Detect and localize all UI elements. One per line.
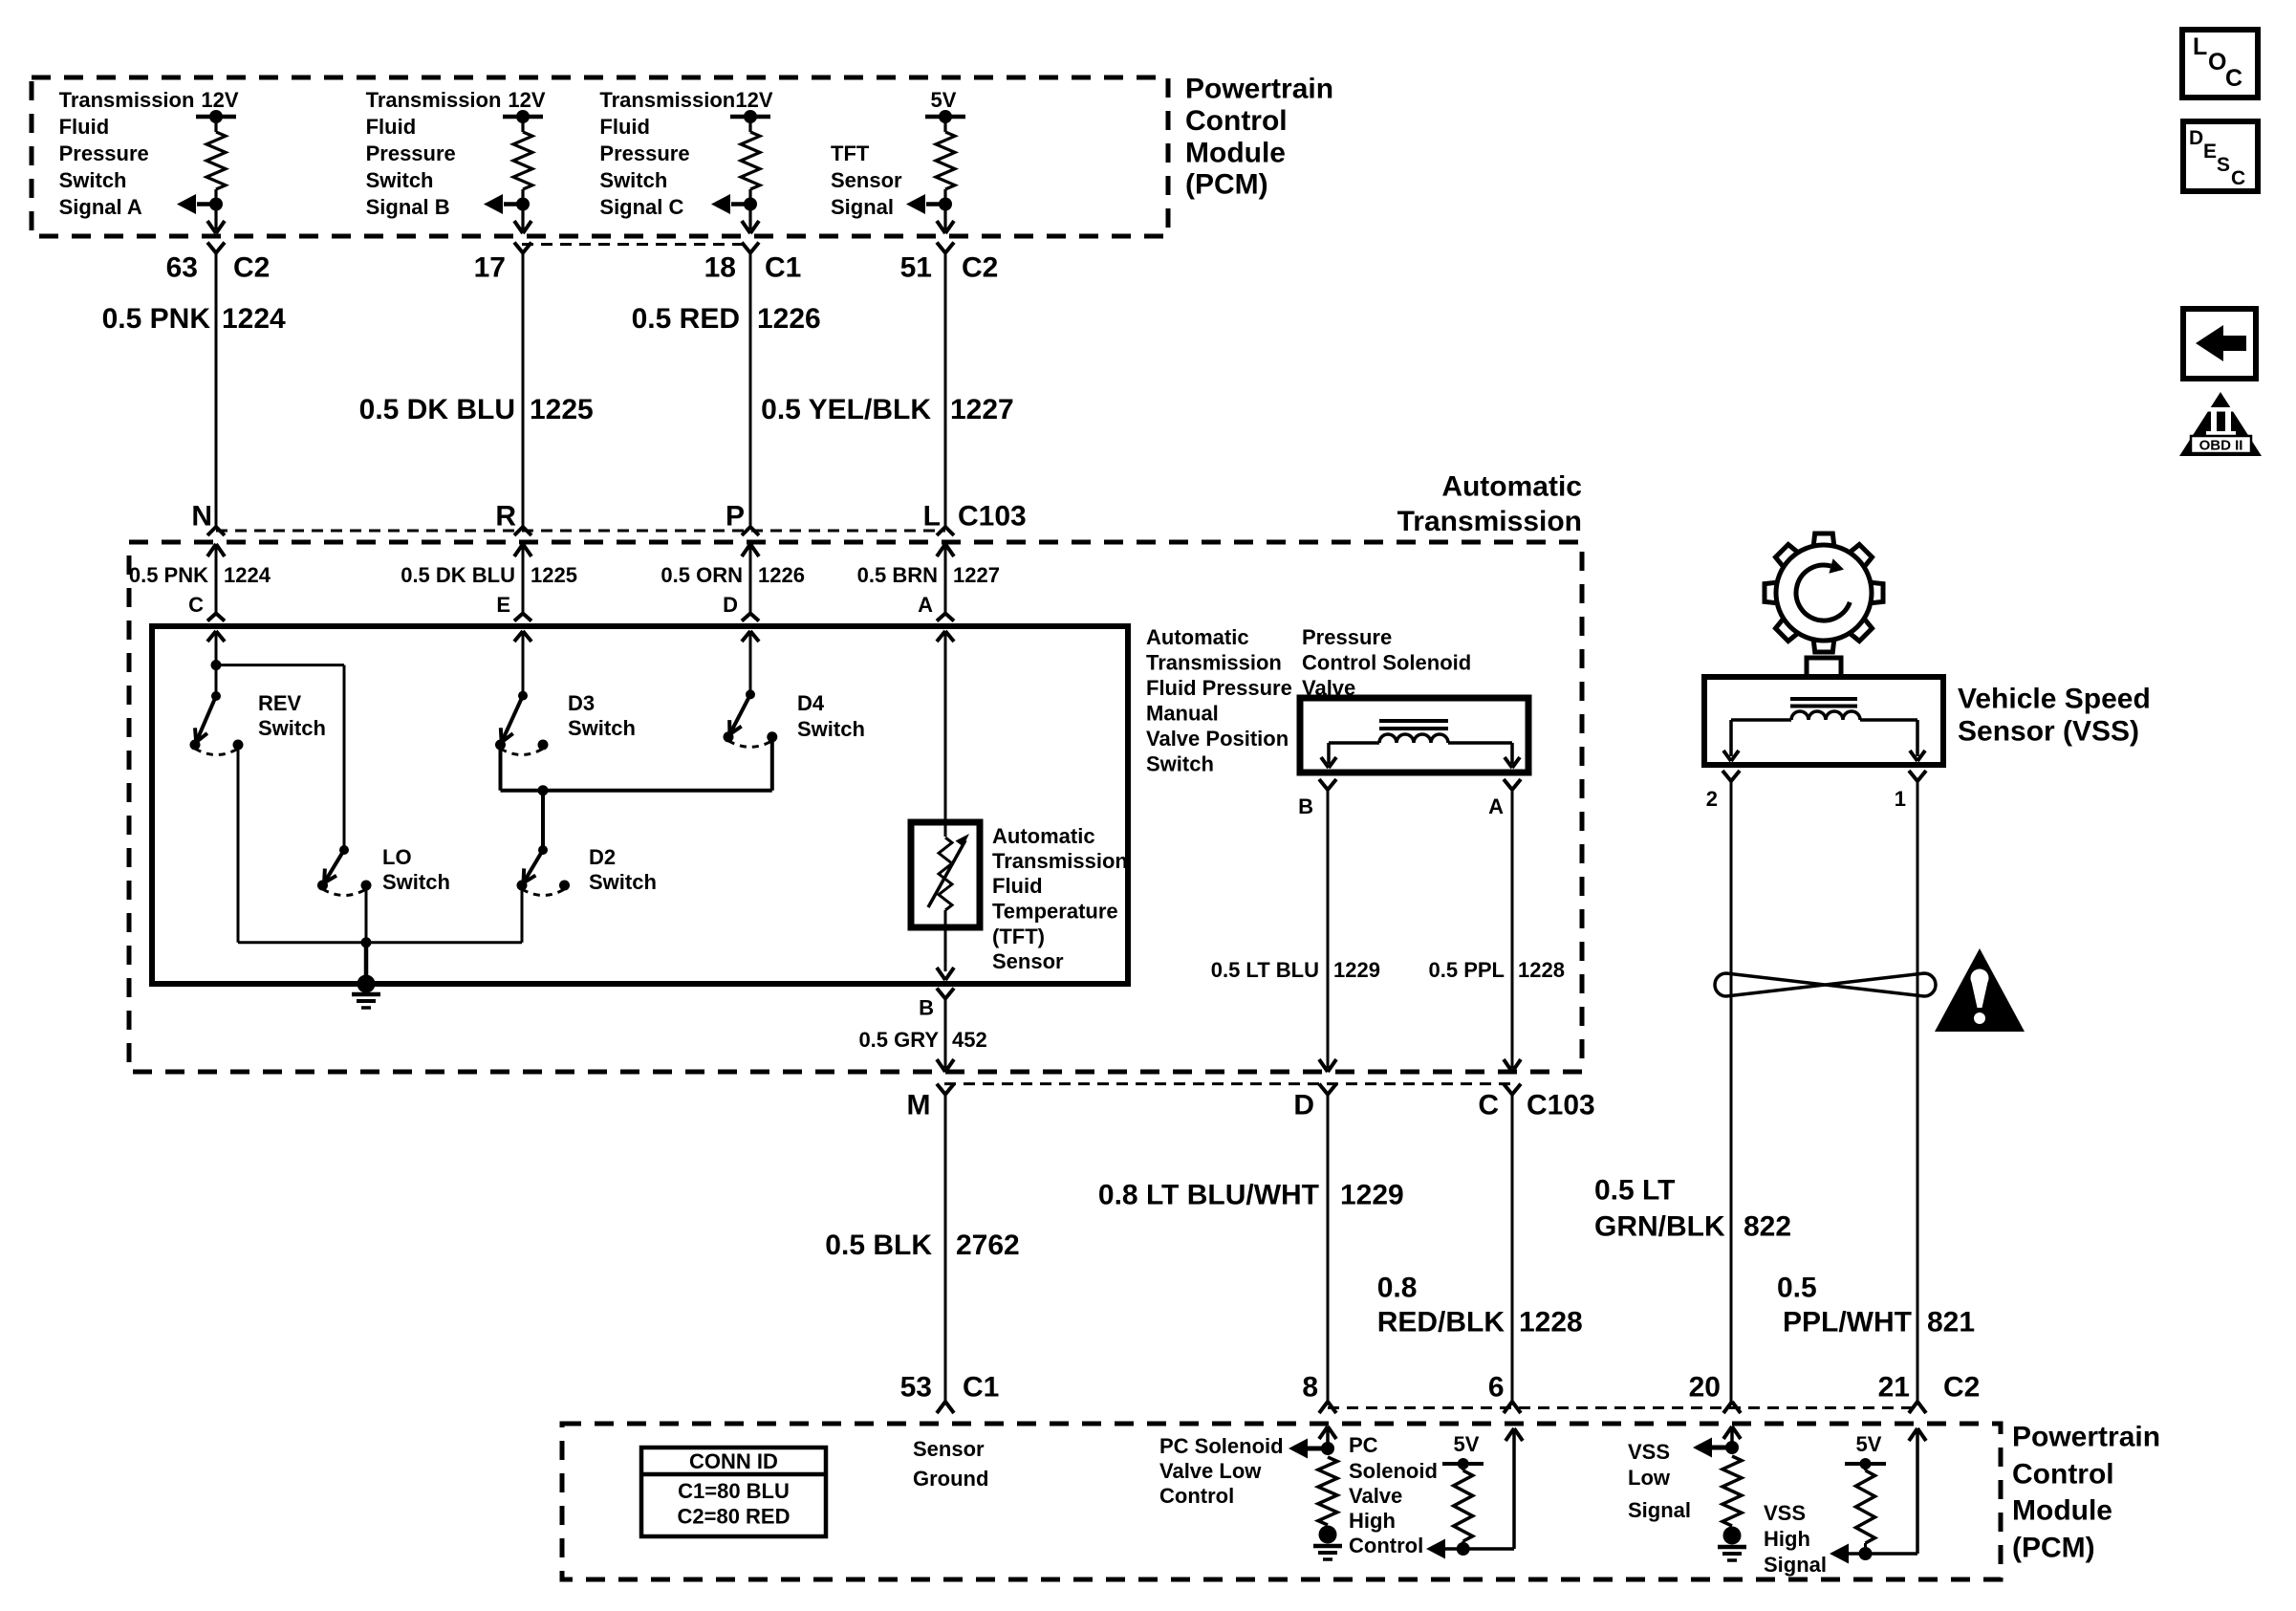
- wire L connector fork at C103: [937, 527, 954, 535]
- PC solenoid high control node: [1426, 1539, 1514, 1559]
- VSS reluctor gear icon: [1765, 533, 1883, 652]
- pin 6 label: [1488, 1372, 1505, 1404]
- svg-text:(PCM): (PCM): [2012, 1533, 2095, 1564]
- svg-text:0.5 PNK: 0.5 PNK: [102, 303, 211, 335]
- 5V supply label col TFT: [931, 88, 957, 112]
- wire label 0.5 DK BLU 1225: [359, 394, 594, 425]
- svg-text:C: C: [1478, 1090, 1499, 1121]
- wire label 0.8 LT BLU/WHT 1229: [1098, 1180, 1404, 1211]
- svg-text:6: 6: [1488, 1372, 1505, 1404]
- wire label 0.5 PNK 1224: [129, 563, 271, 587]
- svg-text:Valve Position: Valve Position: [1146, 727, 1289, 751]
- pin 20 label: [1689, 1372, 1721, 1404]
- svg-text:Low: Low: [1628, 1466, 1671, 1490]
- pin 20 fork at PCM: [1723, 1402, 1741, 1413]
- svg-text:0.5: 0.5: [1777, 1273, 1817, 1304]
- svg-text:VSS: VSS: [1628, 1440, 1670, 1464]
- svg-text:Signal C: Signal C: [599, 195, 683, 219]
- svg-text:Switch: Switch: [568, 716, 636, 740]
- pressure control solenoid valve box: [1300, 698, 1528, 773]
- svg-text:Switch: Switch: [589, 870, 657, 894]
- svg-text:1229: 1229: [1333, 958, 1380, 982]
- svg-text:Pressure: Pressure: [1302, 625, 1392, 649]
- pin 21 fork at PCM: [1909, 1402, 1926, 1413]
- svg-text:Control Solenoid: Control Solenoid: [1302, 651, 1471, 675]
- switch common ground bus: [238, 937, 522, 984]
- pin M fork at C103: [937, 1084, 954, 1095]
- label Pressure Control Solenoid Valve: [1302, 625, 1471, 700]
- VSS core: [1790, 699, 1857, 707]
- pin C label: [188, 593, 204, 617]
- svg-text:63: 63: [166, 252, 198, 284]
- svg-text:VSS: VSS: [1764, 1501, 1806, 1525]
- 12V supply bar col A: [196, 110, 236, 123]
- switch LO: [317, 845, 372, 896]
- connector pin fork col TFT: [937, 243, 954, 253]
- VSS sensor stem: [1807, 658, 1841, 677]
- wire C stem to REV: [215, 631, 218, 696]
- label Powertrain Control Module (PCM) bottom right: [2012, 1422, 2160, 1564]
- svg-text:1228: 1228: [1519, 1307, 1583, 1339]
- pin 2 fork VSS: [1722, 771, 1740, 781]
- svg-text:Transmission: Transmission: [366, 88, 502, 112]
- 5V supply label PC: [1454, 1432, 1480, 1456]
- svg-text:1226: 1226: [757, 303, 821, 335]
- signal tap junction col TFT: [906, 194, 952, 214]
- svg-text:Transmission: Transmission: [992, 849, 1128, 873]
- wire LO contact down: [365, 885, 368, 943]
- svg-text:Powertrain: Powertrain: [1185, 74, 1333, 105]
- wire D vertical: [1327, 1095, 1330, 1402]
- pin A label: [918, 593, 933, 617]
- svg-text:0.5 GRY: 0.5 GRY: [858, 1028, 939, 1052]
- Automatic Transmission box: [129, 542, 1582, 1072]
- svg-text:C: C: [2225, 65, 2242, 92]
- wire label 0.5 LT BLU 1229: [1211, 958, 1380, 982]
- LOC icon: [2182, 30, 2258, 98]
- svg-text:0.8: 0.8: [1377, 1273, 1418, 1304]
- pin A label PCSV: [1488, 795, 1504, 818]
- svg-text:CONN ID: CONN ID: [689, 1449, 778, 1473]
- wire segment col E inside AT: [522, 544, 525, 614]
- svg-text:C1: C1: [963, 1372, 999, 1404]
- label Powertrain Control Module (PCM) top right: [1185, 74, 1333, 201]
- svg-text:18: 18: [704, 252, 736, 284]
- svg-text:0.5 RED: 0.5 RED: [632, 303, 740, 335]
- wire arrow into connector col B: [514, 221, 531, 233]
- svg-text:Switch: Switch: [599, 168, 667, 192]
- 5V supply bar PC: [1442, 1458, 1484, 1469]
- 12V supply label col B: [508, 88, 545, 112]
- wire arrow into switch box col C: [207, 631, 225, 642]
- svg-text:Signal A: Signal A: [59, 195, 142, 219]
- svg-text:8: 8: [1302, 1372, 1318, 1404]
- pin A fork PCSV: [1504, 779, 1521, 790]
- PC solenoid low tap: [1289, 1439, 1334, 1459]
- twisted pair symbol: [1715, 973, 1936, 996]
- svg-text:1227: 1227: [953, 563, 1000, 587]
- resistor VSS high: [1856, 1464, 1875, 1554]
- svg-text:Switch: Switch: [797, 717, 865, 741]
- wire VSS 1 vertical: [1917, 781, 1919, 1402]
- svg-text:Valve: Valve: [1349, 1484, 1402, 1508]
- svg-text:A: A: [918, 593, 933, 617]
- svg-text:Ground: Ground: [913, 1467, 988, 1491]
- connector pin fork col A: [207, 243, 225, 253]
- VSS internal wires: [1731, 720, 1917, 756]
- wire C arrow at AT box exit: [1504, 1059, 1521, 1072]
- svg-text:0.5 BRN: 0.5 BRN: [857, 563, 938, 587]
- svg-text:17: 17: [474, 252, 506, 284]
- label PC Solenoid Valve Low Control: [1159, 1434, 1284, 1508]
- svg-text:Powertrain: Powertrain: [2012, 1422, 2160, 1453]
- pin C fork at C103: [1504, 1084, 1521, 1095]
- svg-text:1229: 1229: [1340, 1180, 1404, 1211]
- svg-text:5V: 5V: [931, 88, 957, 112]
- svg-text:1225: 1225: [531, 563, 577, 587]
- VSS coil: [1791, 711, 1860, 720]
- svg-text:0.5 DK BLU: 0.5 DK BLU: [401, 563, 515, 587]
- wire arrow into connector col C: [742, 221, 759, 233]
- svg-text:PPL/WHT: PPL/WHT: [1783, 1307, 1912, 1339]
- svg-text:51: 51: [900, 252, 932, 284]
- svg-text:R: R: [495, 501, 516, 533]
- wire D2 contact down: [521, 885, 524, 943]
- svg-text:Pressure: Pressure: [599, 142, 689, 165]
- svg-text:Sensor: Sensor: [831, 168, 902, 192]
- 5V supply label VSS: [1856, 1432, 1882, 1456]
- ground (PC solenoid low): [1313, 1526, 1342, 1560]
- pin C label: [1478, 1090, 1499, 1121]
- label Automatic Transmission title: [1397, 471, 1582, 538]
- svg-text:Temperature: Temperature: [992, 900, 1118, 924]
- pin B label PCSV: [1298, 795, 1313, 818]
- wire arrow into AT box col A: [937, 544, 954, 556]
- svg-text:Module: Module: [1185, 138, 1286, 169]
- svg-text:OBD II: OBD II: [2199, 438, 2243, 454]
- pin D fork at C103: [1319, 1084, 1336, 1095]
- connector pin fork col B: [514, 243, 531, 253]
- wire D arrow at AT box exit: [1319, 1059, 1336, 1072]
- wire label 0.5 BRN 1227: [857, 563, 1000, 587]
- svg-text:1225: 1225: [530, 394, 594, 425]
- wire 21 riser: [1909, 1428, 1926, 1554]
- svg-text:Transmission: Transmission: [1146, 651, 1282, 675]
- svg-text:P: P: [726, 501, 745, 533]
- pin 1 label: [1895, 787, 1906, 811]
- PCSV core: [1379, 721, 1448, 729]
- svg-text:0.8 LT BLU/WHT: 0.8 LT BLU/WHT: [1098, 1180, 1319, 1211]
- 5V supply bar VSS: [1845, 1458, 1886, 1469]
- svg-text:1: 1: [1895, 787, 1906, 811]
- junction node C to LO feed: [211, 660, 345, 850]
- pin 8 fork at PCM: [1319, 1402, 1336, 1413]
- wire B arrow out of switch box: [937, 968, 954, 980]
- svg-text:5V: 5V: [1856, 1432, 1882, 1456]
- signal tap junction col B: [484, 194, 530, 214]
- svg-text:E: E: [496, 593, 510, 617]
- svg-text:C1=80 BLU: C1=80 BLU: [678, 1479, 790, 1503]
- svg-text:B: B: [1298, 795, 1313, 818]
- pin 53 C1 label: [900, 1372, 1000, 1404]
- vehicle speed sensor box: [1704, 677, 1943, 765]
- pin A fork at switch box: [937, 614, 954, 621]
- signal tap junction col A: [177, 194, 223, 214]
- DESC icon: [2183, 121, 2258, 191]
- label PC Solenoid Valve High Control: [1349, 1433, 1438, 1557]
- svg-text:Fluid: Fluid: [599, 115, 650, 139]
- VSS high signal node: [1830, 1544, 1917, 1564]
- svg-text:L: L: [923, 501, 941, 533]
- junction node D2 feed: [538, 785, 549, 850]
- wire label 0.5 RED 1226: [632, 303, 821, 335]
- svg-text:PC Solenoid: PC Solenoid: [1159, 1434, 1284, 1458]
- wire PCSV A vertical: [1511, 790, 1514, 1068]
- svg-text:0.5 LT: 0.5 LT: [1594, 1175, 1675, 1207]
- wire segment col A inside AT: [944, 544, 947, 614]
- svg-text:High: High: [1349, 1509, 1396, 1533]
- wire arrow into switch box col E: [514, 631, 531, 642]
- label Automatic Transmission Fluid Pressure Manual Valve Position Switch: [1146, 625, 1292, 776]
- svg-text:Module: Module: [2012, 1495, 2112, 1527]
- pin L label: [923, 501, 941, 533]
- svg-text:21: 21: [1878, 1372, 1910, 1404]
- svg-text:Solenoid: Solenoid: [1349, 1459, 1438, 1483]
- wire C vertical: [1511, 1095, 1514, 1402]
- resistor PC solenoid low: [1318, 1457, 1337, 1525]
- svg-text:12V: 12V: [201, 88, 238, 112]
- svg-text:C103: C103: [958, 501, 1027, 533]
- svg-text:C: C: [2231, 167, 2245, 189]
- svg-text:Manual: Manual: [1146, 702, 1219, 726]
- label TFT signal text: [831, 142, 902, 219]
- label LO Switch: [382, 845, 450, 894]
- resistor VSS low: [1722, 1456, 1742, 1526]
- svg-text:Signal: Signal: [831, 195, 894, 219]
- label C signal text: [599, 88, 735, 219]
- svg-text:O: O: [2208, 49, 2226, 76]
- wire label 0.5 YEL/BLK 1227: [761, 394, 1014, 425]
- pin D fork at switch box: [742, 614, 759, 621]
- signal tap junction col C: [711, 194, 757, 214]
- svg-text:D3: D3: [568, 691, 595, 715]
- svg-text:D: D: [2189, 127, 2203, 149]
- svg-text:C2: C2: [1943, 1372, 1980, 1404]
- TFT sensor box: [911, 822, 980, 927]
- svg-text:0.5 YEL/BLK: 0.5 YEL/BLK: [761, 394, 931, 425]
- CONN ID table: [641, 1448, 826, 1536]
- connector C103 dashed line top: [216, 530, 945, 533]
- switch REV: [190, 691, 244, 755]
- manual valve position switch box: [152, 626, 1128, 984]
- svg-text:N: N: [191, 501, 212, 533]
- svg-text:5V: 5V: [1454, 1432, 1480, 1456]
- wire label 0.5 PPL/WHT 821: [1777, 1273, 1975, 1339]
- label D2 Switch: [589, 845, 657, 894]
- svg-text:Switch: Switch: [382, 870, 450, 894]
- wire VSS 2 vertical: [1730, 781, 1733, 1402]
- svg-text:0.5 DK BLU: 0.5 DK BLU: [359, 394, 515, 425]
- svg-text:C1: C1: [765, 252, 801, 284]
- wire label 0.5 GRY 452: [858, 1028, 986, 1052]
- svg-text:Signal: Signal: [1764, 1553, 1827, 1577]
- svg-text:C2=80 RED: C2=80 RED: [677, 1505, 790, 1529]
- wire arrow into switch box col D: [742, 631, 759, 642]
- PCM module box (top): [32, 77, 1168, 236]
- svg-text:C: C: [188, 593, 204, 617]
- wire segment col D inside AT: [749, 544, 752, 614]
- svg-text:Pressure: Pressure: [59, 142, 149, 165]
- pin E label: [496, 593, 510, 617]
- ground (VSS low): [1718, 1527, 1746, 1561]
- connector C103 dashed line bottom: [944, 1082, 1513, 1085]
- svg-text:821: 821: [1927, 1307, 1975, 1339]
- pin 17 label: [474, 252, 506, 284]
- 12V supply bar col B: [503, 110, 543, 123]
- svg-text:C2: C2: [962, 252, 998, 284]
- wire R vertical: [522, 253, 525, 528]
- svg-text:20: 20: [1689, 1372, 1721, 1404]
- svg-text:Signal B: Signal B: [366, 195, 450, 219]
- pin N label: [191, 501, 212, 533]
- switch D2: [517, 845, 571, 896]
- svg-text:822: 822: [1744, 1211, 1791, 1243]
- pin R label: [495, 501, 516, 533]
- wire M arrow at AT box exit: [937, 1059, 954, 1072]
- svg-text:Switch: Switch: [258, 716, 326, 740]
- label D4 Switch: [797, 691, 865, 741]
- svg-text:12V: 12V: [508, 88, 545, 112]
- switch D4: [724, 689, 778, 747]
- svg-text:Fluid: Fluid: [59, 115, 110, 139]
- wire label 0.5 LT GRN/BLK 822: [1594, 1175, 1791, 1243]
- label REV Switch: [258, 691, 326, 740]
- label Sensor Ground: [913, 1437, 988, 1491]
- wire label 0.5 PNK 1224: [102, 303, 286, 335]
- switch D3: [495, 691, 549, 755]
- VSS low tap: [1693, 1438, 1739, 1458]
- wire REV contact down: [237, 745, 240, 943]
- svg-text:E: E: [2203, 141, 2217, 163]
- wire L vertical: [944, 253, 947, 528]
- svg-text:REV: REV: [258, 691, 302, 715]
- svg-text:Automatic: Automatic: [1441, 471, 1582, 503]
- svg-text:M: M: [907, 1090, 931, 1121]
- svg-text:C103: C103: [1527, 1090, 1595, 1121]
- pin 8 label: [1302, 1372, 1318, 1404]
- connector pin fork col C: [742, 243, 759, 253]
- PCM module box (bottom): [562, 1424, 2001, 1579]
- wire D stem to D4: [749, 631, 752, 694]
- svg-text:RED/BLK: RED/BLK: [1377, 1307, 1505, 1339]
- label Automatic Transmission Fluid Temperature (TFT) Sensor: [992, 824, 1128, 973]
- wire 20 arrow into PCM: [1723, 1426, 1741, 1448]
- svg-text:D: D: [1293, 1090, 1314, 1121]
- svg-text:Valve Low: Valve Low: [1159, 1459, 1262, 1483]
- ground (switch common): [352, 975, 380, 1009]
- TFT thermistor: [928, 834, 969, 971]
- pin 6 fork at PCM: [1504, 1402, 1521, 1413]
- pin B fork PCSV: [1319, 779, 1336, 790]
- svg-text:Fluid: Fluid: [366, 115, 417, 139]
- svg-text:A: A: [1488, 795, 1504, 818]
- svg-text:TFT: TFT: [831, 142, 870, 165]
- pin 1 fork VSS: [1909, 771, 1926, 781]
- wire label 0.8 RED/BLK 1228: [1377, 1273, 1583, 1339]
- svg-text:0.5 ORN: 0.5 ORN: [661, 563, 743, 587]
- svg-text:Fluid Pressure: Fluid Pressure: [1146, 676, 1292, 700]
- svg-text:High: High: [1764, 1527, 1810, 1551]
- wire arrow into connector col TFT: [937, 221, 954, 233]
- wire D3-D4 common bus: [501, 789, 772, 793]
- svg-text:Transmission: Transmission: [59, 88, 195, 112]
- 12V supply bar col C: [730, 110, 770, 123]
- svg-text:53: 53: [900, 1372, 932, 1404]
- svg-text:Sensor: Sensor: [913, 1437, 985, 1461]
- svg-text:12V: 12V: [735, 88, 772, 112]
- wire M vertical (sensor ground): [944, 1095, 947, 1402]
- pin E fork at switch box: [514, 614, 531, 621]
- label VSS Low Signal: [1628, 1440, 1691, 1522]
- svg-text:S: S: [2217, 154, 2230, 176]
- pin D label: [1293, 1090, 1314, 1121]
- svg-text:Automatic: Automatic: [1146, 625, 1249, 649]
- svg-text:Switch: Switch: [366, 168, 434, 192]
- wire D4 contact down: [770, 737, 774, 791]
- label D3 Switch: [568, 691, 636, 740]
- svg-text:D2: D2: [589, 845, 616, 869]
- wire B vertical: [944, 999, 947, 1069]
- wire 6 riser: [1505, 1428, 1523, 1549]
- svg-text:Sensor (VSS): Sensor (VSS): [1958, 716, 2139, 748]
- svg-text:Transmission: Transmission: [1397, 506, 1582, 537]
- resistor PC solenoid high: [1454, 1464, 1473, 1549]
- svg-text:L: L: [2193, 33, 2207, 60]
- wire A stem to TFT: [944, 631, 947, 837]
- svg-text:Signal: Signal: [1628, 1498, 1691, 1522]
- PCSV internal wires: [1329, 743, 1512, 764]
- svg-text:Switch: Switch: [59, 168, 127, 192]
- svg-text:Vehicle Speed: Vehicle Speed: [1958, 684, 2151, 715]
- wire arrow into connector col A: [207, 221, 225, 233]
- svg-text:2762: 2762: [956, 1230, 1020, 1261]
- connector C1 dashed line: [522, 243, 751, 246]
- pin 51 C2 label: [900, 252, 999, 284]
- svg-text:Control: Control: [1185, 105, 1288, 137]
- connector C103 label bottom: [1527, 1090, 1595, 1121]
- PCSV coil: [1379, 734, 1448, 743]
- svg-text:Fluid: Fluid: [992, 874, 1043, 898]
- svg-text:0.5 PNK: 0.5 PNK: [129, 563, 208, 587]
- 12V supply label col A: [201, 88, 238, 112]
- svg-text:GRN/BLK: GRN/BLK: [1594, 1211, 1725, 1243]
- resistor pull-up col TFT: [936, 117, 955, 229]
- svg-text:Transmission: Transmission: [599, 88, 735, 112]
- wire label 0.5 ORN 1226: [661, 563, 805, 587]
- VSS internal arrows: [1723, 751, 1925, 761]
- label Vehicle Speed Sensor (VSS): [1958, 684, 2151, 748]
- wire arrow into AT box col E: [514, 544, 531, 556]
- svg-text:Control: Control: [1349, 1534, 1423, 1557]
- label VSS High Signal: [1764, 1501, 1827, 1577]
- pin 2 label: [1706, 787, 1718, 811]
- wire arrow into switch box col A: [937, 631, 954, 642]
- wire arrow into AT box col D: [742, 544, 759, 556]
- wire P vertical: [749, 253, 752, 528]
- wire 8 arrow into PCM: [1319, 1426, 1336, 1448]
- svg-text:LO: LO: [382, 845, 412, 869]
- wire PCSV B vertical: [1327, 790, 1330, 1068]
